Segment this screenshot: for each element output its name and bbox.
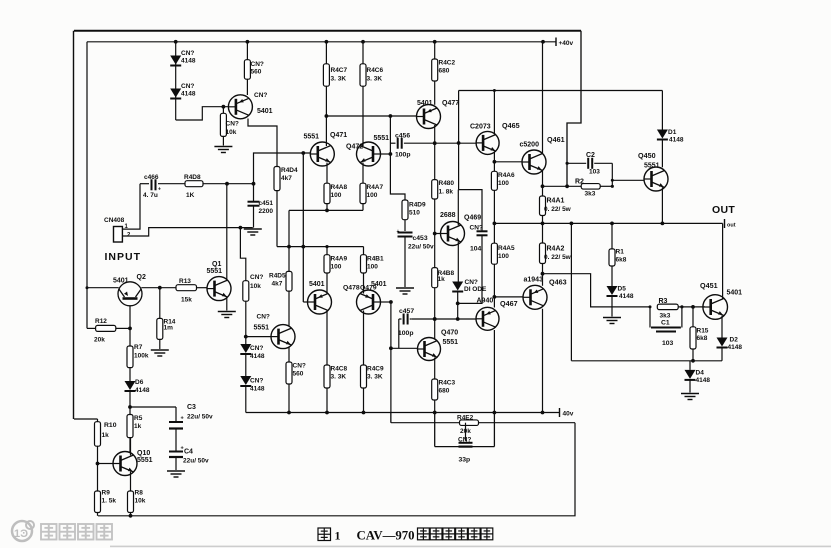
svg-text:R480: R480 xyxy=(439,180,455,187)
resistor CN? 10k mid-left xyxy=(243,274,264,301)
svg-text:D1: D1 xyxy=(668,129,677,136)
svg-text:104: 104 xyxy=(470,245,482,252)
svg-text:5401: 5401 xyxy=(417,100,433,107)
svg-text:R1: R1 xyxy=(616,249,625,256)
transistor Q470 5551 xyxy=(418,329,459,360)
svg-text:22u/ 50v: 22u/ 50v xyxy=(408,244,434,251)
svg-text:Q467: Q467 xyxy=(500,299,518,308)
capacitor CN? 33p xyxy=(458,423,473,464)
resistor R4D4 4k7 xyxy=(274,167,298,191)
diode D2 4148 xyxy=(717,337,743,352)
wire Q1 emitter down xyxy=(226,297,228,311)
wire diode to Q467 base line xyxy=(456,292,460,321)
svg-text:R5: R5 xyxy=(134,415,143,422)
svg-text:4148: 4148 xyxy=(135,387,150,394)
svg-text:out: out xyxy=(727,223,736,229)
svg-text:Q463: Q463 xyxy=(549,277,567,286)
svg-text:R4D9: R4D9 xyxy=(409,202,426,209)
svg-text:560: 560 xyxy=(293,371,304,378)
resistor R4E2 20k xyxy=(457,415,479,435)
diode CN? DIODE xyxy=(452,279,487,293)
wire R7 to D6 xyxy=(129,368,131,381)
svg-text:4k7: 4k7 xyxy=(272,281,283,288)
svg-text:R4A2: R4A2 xyxy=(547,246,565,253)
svg-text:510: 510 xyxy=(409,210,420,217)
resistor R4C3 680 xyxy=(432,379,456,400)
svg-text:1k: 1k xyxy=(102,432,110,439)
svg-text:5401: 5401 xyxy=(309,281,325,288)
svg-text:C4: C4 xyxy=(184,449,193,456)
caption 图1 CAV-970 型后级电路图 xyxy=(318,528,493,543)
resistor R3 3k3 xyxy=(657,304,678,310)
ground under C4 xyxy=(167,471,185,477)
svg-text:R4C2: R4C2 xyxy=(439,60,456,67)
svg-text:5401: 5401 xyxy=(371,281,387,288)
svg-text:R10: R10 xyxy=(104,422,117,429)
svg-text:CN?: CN? xyxy=(257,314,270,321)
wire Q479 emitter xyxy=(363,311,365,366)
svg-text:C1: C1 xyxy=(661,320,670,327)
svg-text:3. 3K: 3. 3K xyxy=(367,76,383,83)
wire mid diode to rail xyxy=(245,386,247,413)
wire Q470 base line xyxy=(391,347,418,349)
ground input xyxy=(244,229,262,235)
svg-text:R4C6: R4C6 xyxy=(367,67,384,74)
svg-text:1k: 1k xyxy=(134,423,142,430)
svg-text:4148: 4148 xyxy=(181,91,196,98)
svg-text:R4C3: R4C3 xyxy=(439,380,456,387)
svg-text:680: 680 xyxy=(439,68,450,75)
wire R9 to bottom rail xyxy=(97,513,99,516)
resistor R4C2 680 xyxy=(432,42,456,81)
svg-text:5551: 5551 xyxy=(254,324,270,331)
svg-text:D2: D2 xyxy=(730,337,739,344)
wire R4A5 to Q467 xyxy=(493,264,495,307)
svg-text:680: 680 xyxy=(439,388,450,395)
wire D4 to ground xyxy=(689,381,691,393)
wire R4B8 to Q470 xyxy=(433,288,437,340)
node INPUT label xyxy=(105,251,142,263)
transistor Q467 A940 xyxy=(476,297,518,330)
transistor Q478 5401 xyxy=(308,281,332,314)
junction rail dots xyxy=(174,40,545,44)
svg-text:CN?: CN? xyxy=(465,279,478,286)
scan edge strip xyxy=(110,546,831,548)
svg-text:R4D8: R4D8 xyxy=(184,174,201,181)
capacitor c456 100p xyxy=(390,133,434,159)
svg-text:100k: 100k xyxy=(134,353,149,360)
svg-text:10k: 10k xyxy=(226,129,237,136)
wire inner left vertical xyxy=(86,42,88,329)
ground under D4 xyxy=(681,394,699,400)
wire Q465 base line xyxy=(435,142,477,144)
wire c457 left down xyxy=(398,319,400,348)
transistor Q479 5401 xyxy=(343,281,387,314)
wire Q470 emitter xyxy=(434,358,436,380)
wire R8 to bottom rail xyxy=(129,513,133,518)
wire L1 tail line xyxy=(289,209,363,211)
transistor Q463 a1943 xyxy=(523,277,567,310)
wire D6 to node xyxy=(128,391,132,415)
svg-text:OUT: OUT xyxy=(712,204,735,216)
svg-text:5401: 5401 xyxy=(727,290,743,297)
svg-text:10k: 10k xyxy=(135,498,146,505)
svg-text:D4: D4 xyxy=(696,370,705,377)
svg-text:1. 8k: 1. 8k xyxy=(439,189,454,196)
svg-text:3k3: 3k3 xyxy=(660,312,671,319)
svg-text:100: 100 xyxy=(367,264,378,271)
svg-text:R7: R7 xyxy=(134,344,143,351)
svg-text:R9: R9 xyxy=(102,490,111,497)
wire riser to Q471 base xyxy=(254,153,311,184)
svg-text:R4E2: R4E2 xyxy=(457,415,474,422)
svg-text:CN?: CN? xyxy=(250,345,263,352)
svg-text:0. 22/ 5w: 0. 22/ 5w xyxy=(544,254,572,261)
transistor CN? 5401 top-left xyxy=(228,92,272,119)
svg-text:+: + xyxy=(158,187,161,193)
svg-text:R4C8: R4C8 xyxy=(331,366,348,373)
svg-text:3k3: 3k3 xyxy=(585,191,596,198)
wire c466 down to pin1 xyxy=(122,184,140,229)
svg-text:5551: 5551 xyxy=(644,163,660,170)
wire Q463 emitter to rail xyxy=(541,309,545,415)
svg-text:100: 100 xyxy=(331,192,342,199)
wire R480 to R4B8 column xyxy=(433,199,437,268)
svg-text:20k: 20k xyxy=(94,337,105,344)
wire R2 to node xyxy=(600,185,614,188)
wire Q2 bottom column xyxy=(129,306,131,346)
svg-text:1k: 1k xyxy=(438,276,446,283)
svg-text:CN?: CN? xyxy=(470,225,483,232)
wire D1 feed line xyxy=(459,90,663,92)
wire R4A9 to Q478 xyxy=(326,273,328,294)
wire Q465 collector up xyxy=(493,89,496,134)
resistor R4A6 100 xyxy=(491,171,515,190)
svg-text:5401: 5401 xyxy=(257,108,273,115)
svg-text:R4A5: R4A5 xyxy=(498,245,515,252)
svg-text:4148: 4148 xyxy=(619,293,634,300)
wire between mid diodes xyxy=(245,354,247,376)
diode D4 4148 xyxy=(685,361,711,384)
svg-text:CN?: CN? xyxy=(250,378,263,385)
svg-text:Q477: Q477 xyxy=(442,100,459,107)
wire Q461 emitter xyxy=(541,171,545,197)
transistor Q2 5401 xyxy=(113,274,146,306)
diode CN? 4148 second xyxy=(170,83,196,99)
connector CN408 xyxy=(104,217,131,242)
resistor CN? 560 top-left xyxy=(244,42,263,95)
svg-text:3. 3K: 3. 3K xyxy=(367,374,383,381)
svg-text:c466: c466 xyxy=(144,174,159,181)
wire Q10 base xyxy=(98,463,114,465)
wire Q472 base to bias column xyxy=(381,152,393,156)
svg-text:R12: R12 xyxy=(95,318,107,325)
wire Q469 emitter down xyxy=(457,242,459,282)
svg-text:1Ͽ: 1Ͽ xyxy=(14,528,28,540)
svg-text:CN?: CN? xyxy=(250,274,263,281)
wire node to C3 xyxy=(130,406,176,408)
resistor R4D5 4k7 xyxy=(269,271,292,291)
wire Q463 base line xyxy=(493,295,524,299)
diode CN? 4148 top xyxy=(170,50,196,66)
diode CN? 4148 mid lower xyxy=(240,376,265,393)
svg-text:c453: c453 xyxy=(413,235,428,242)
svg-text:4148: 4148 xyxy=(181,58,196,65)
wire R4C7 to Q471 xyxy=(325,86,329,146)
wire Q471 emitter xyxy=(326,163,328,184)
svg-text:5551: 5551 xyxy=(443,339,459,346)
svg-text:5551: 5551 xyxy=(374,135,390,142)
wire 104 to diode node xyxy=(456,235,482,305)
wire right drop from frame xyxy=(567,31,581,187)
svg-text:Q469: Q469 xyxy=(464,215,481,222)
wire 10k to Q3 base node xyxy=(244,301,248,344)
wire R4D4 to L2 xyxy=(276,191,278,247)
svg-text:Q471: Q471 xyxy=(330,132,347,139)
capacitor c466 4.7u xyxy=(140,174,185,199)
svg-text:3. 3K: 3. 3K xyxy=(331,374,347,381)
svg-text:4148: 4148 xyxy=(250,353,265,360)
wire R4E2 line xyxy=(391,422,575,424)
svg-text:Q465: Q465 xyxy=(502,121,520,130)
node OUT rail xyxy=(494,222,722,224)
capacitor C4 22u/50v xyxy=(169,446,209,465)
wire diode column xyxy=(175,42,177,120)
wire Q467 emitter to rail xyxy=(493,330,497,414)
svg-text:D5: D5 xyxy=(618,286,627,293)
wire pin2 to ground line xyxy=(122,226,252,236)
svg-text:100: 100 xyxy=(498,180,509,187)
wire R10 to R9 xyxy=(96,446,100,491)
wire Q450 emitter to OUT xyxy=(661,188,665,226)
resistor R4A1 0.22/5w xyxy=(540,196,572,216)
transistor Q477 5401 xyxy=(417,100,460,129)
wire R4A8 to L1 xyxy=(325,204,329,213)
wire Q479 base to feedback xyxy=(381,300,393,304)
wire Q469 collector up xyxy=(457,190,459,226)
wire Q467 base line xyxy=(412,317,476,321)
svg-text:5551: 5551 xyxy=(207,268,223,275)
wire Q465 emitter xyxy=(493,152,497,172)
svg-text:R4C9: R4C9 xyxy=(367,366,384,373)
diode CN? 4148 mid upper xyxy=(240,344,265,360)
wire R4C9 to rail xyxy=(362,388,366,414)
svg-text:+: + xyxy=(397,229,400,235)
svg-text:CAV—970: CAV—970 xyxy=(357,529,415,543)
wire bottom loop right xyxy=(98,423,575,516)
svg-text:a1943: a1943 xyxy=(524,277,544,284)
transistor Q450 5551 xyxy=(638,151,668,191)
svg-text:R4C7: R4C7 xyxy=(331,67,348,74)
wire Q10 collector xyxy=(130,438,132,456)
svg-text:R4A1: R4A1 xyxy=(547,198,565,205)
svg-text:5551: 5551 xyxy=(137,457,153,464)
svg-text:Q478: Q478 xyxy=(343,285,360,292)
svg-text:R15: R15 xyxy=(697,328,709,335)
transistor Q1 5551 xyxy=(207,261,232,301)
wire Q2 base from left xyxy=(86,286,119,289)
svg-text:5551: 5551 xyxy=(304,133,320,140)
svg-text:A940: A940 xyxy=(477,297,494,304)
svg-text:1K: 1K xyxy=(186,192,195,199)
svg-text:R4A7: R4A7 xyxy=(367,184,384,191)
wire C2 right down xyxy=(611,163,613,186)
svg-text:c5200: c5200 xyxy=(520,142,540,149)
svg-text:1: 1 xyxy=(335,529,341,543)
wire outer frame left xyxy=(73,31,75,419)
wire Q477 base line xyxy=(326,114,417,118)
wire c453 to ground xyxy=(404,237,406,288)
wire R4D9 to c453 xyxy=(404,220,406,231)
node OUT terminal xyxy=(725,219,736,229)
wire outer frame top xyxy=(74,30,581,32)
svg-text:3. 3K: 3. 3K xyxy=(331,76,347,83)
transistor Q469 2688 xyxy=(440,212,481,246)
wire input line xyxy=(203,182,255,186)
resistor CN? 10k top-left xyxy=(220,107,238,146)
wire R4A2 to Q463 xyxy=(541,264,545,286)
transistor Q465 C2073 xyxy=(470,121,520,154)
wire D2 horizontal line xyxy=(571,360,722,362)
resistor R4C8 3.3K xyxy=(324,365,348,388)
svg-text:103: 103 xyxy=(589,169,600,176)
ground under R14 xyxy=(151,350,169,356)
wire R2 line xyxy=(543,184,582,188)
wire Q461 base line xyxy=(494,161,522,163)
wire R5 to Q10 xyxy=(129,438,131,453)
svg-text:R4A9: R4A9 xyxy=(331,256,348,263)
svg-text:40v: 40v xyxy=(563,411,574,418)
resistor R1 6k8 xyxy=(609,222,627,267)
transistor Q461 c5200 xyxy=(520,135,565,174)
wire drop to 104 cap xyxy=(459,190,482,231)
svg-text:2200: 2200 xyxy=(259,208,274,215)
resistor CN? 560 mid xyxy=(286,348,306,415)
resistor R14 1m xyxy=(157,288,176,349)
svg-text:DI ODE: DI ODE xyxy=(464,286,487,293)
wire R15 to D-line xyxy=(691,349,695,363)
wire feedback vertical xyxy=(389,302,393,423)
wire D5 to ground xyxy=(611,297,613,317)
wire Q477 emitter column xyxy=(433,125,437,180)
svg-text:c457: c457 xyxy=(399,308,414,315)
resistor R4A9 100 xyxy=(324,245,348,273)
wire Q3 base xyxy=(246,336,271,338)
svg-text:c451: c451 xyxy=(259,200,274,207)
wire bottom return rail xyxy=(390,413,392,423)
svg-text:C3: C3 xyxy=(187,404,196,411)
svg-text:CN?: CN? xyxy=(293,363,306,370)
svg-text:100: 100 xyxy=(331,264,342,271)
resistor R4A5 100 xyxy=(491,223,515,264)
svg-text:1. 5k: 1. 5k xyxy=(102,498,117,505)
wire R13 to Q1 xyxy=(197,287,208,289)
transistor Q10 5551 xyxy=(113,450,153,476)
diode D6 4148 xyxy=(125,379,150,394)
ground under Q1 xyxy=(218,312,236,318)
wire Q478 emitter xyxy=(326,311,328,366)
svg-text:R4D4: R4D4 xyxy=(281,167,298,174)
svg-text:Q450: Q450 xyxy=(638,151,656,160)
node +40v rail xyxy=(87,38,574,48)
svg-text:R8: R8 xyxy=(135,490,144,497)
wire Q461 collector to rail xyxy=(542,42,544,154)
node OUT label xyxy=(712,204,735,216)
ground under 10k xyxy=(214,147,232,153)
svg-text:22u/ 50v: 22u/ 50v xyxy=(183,457,209,464)
resistor R4A8 100 xyxy=(324,183,348,203)
svg-text:INPUT: INPUT xyxy=(105,251,142,263)
svg-text:R4B1: R4B1 xyxy=(367,256,384,263)
svg-text:100: 100 xyxy=(367,192,378,199)
svg-text:6k8: 6k8 xyxy=(697,335,708,342)
wire OUT to D2 line xyxy=(570,222,574,361)
svg-text:4k7: 4k7 xyxy=(281,175,292,182)
svg-text:Q470: Q470 xyxy=(441,329,458,336)
wire R4C2 to Q477 xyxy=(434,81,436,105)
wire L2 line xyxy=(277,245,364,249)
wire C3 to C4 xyxy=(175,429,177,451)
wire R4A2 jog to R3 xyxy=(543,274,651,307)
svg-text:CN?: CN? xyxy=(458,436,471,443)
svg-text:c456: c456 xyxy=(395,133,410,140)
svg-text:1m: 1m xyxy=(164,325,174,332)
wire R4B1 to Q479 xyxy=(363,273,365,294)
svg-text:Q461: Q461 xyxy=(547,135,565,144)
svg-text:R4A6: R4A6 xyxy=(498,172,515,179)
wire Q472 emitter xyxy=(362,163,364,184)
svg-text:+: + xyxy=(181,446,184,452)
transistor Q451 5401 xyxy=(700,281,742,319)
resistor R7 100k xyxy=(127,344,149,368)
wire Q10 emitter xyxy=(130,472,132,491)
svg-text:4148: 4148 xyxy=(696,377,711,384)
watermark logo xyxy=(12,521,112,541)
wire Q451 emitter to D2 xyxy=(721,316,723,338)
svg-text:CN408: CN408 xyxy=(104,217,125,224)
resistor R4B8 1k xyxy=(432,268,455,288)
svg-text:4. 7u: 4. 7u xyxy=(143,192,158,199)
svg-text:560: 560 xyxy=(251,69,262,76)
wire OUT to Q151 xyxy=(722,223,724,299)
wire D2 to line xyxy=(721,348,723,361)
resistor R4C6 3.3K xyxy=(360,42,384,86)
resistor R480 1.8k xyxy=(432,180,455,199)
resistor R15 6k8 xyxy=(690,307,709,349)
capacitor c451 2200 xyxy=(248,184,274,228)
resistor R4D9 510 xyxy=(402,200,426,220)
svg-text:5401: 5401 xyxy=(113,278,129,285)
wire mid 10k jog xyxy=(240,228,245,281)
resistor R12 20k xyxy=(87,318,132,344)
wire R4C3 to rail xyxy=(433,400,437,414)
wire bias vertical xyxy=(390,116,405,200)
wire R4A6 to OUT rail xyxy=(493,190,497,225)
svg-text:CN?: CN? xyxy=(181,50,194,57)
svg-text:CN?: CN? xyxy=(254,92,267,99)
resistor R8 10k xyxy=(128,490,146,513)
wire D1-line drop xyxy=(457,91,461,190)
svg-text:R13: R13 xyxy=(179,278,191,285)
wire 33p loop xyxy=(435,413,495,447)
wire L1 to R4D5 xyxy=(287,210,291,271)
svg-text:0. 22/ 5w: 0. 22/ 5w xyxy=(544,206,572,213)
resistor R4A7 100 xyxy=(360,183,384,203)
wire R4C6 to Q472 xyxy=(362,86,364,146)
wire R4D5 to Q3 xyxy=(288,291,290,326)
wire R4A1 to OUT rail xyxy=(541,216,545,226)
wire Q478 base riser xyxy=(301,151,308,302)
